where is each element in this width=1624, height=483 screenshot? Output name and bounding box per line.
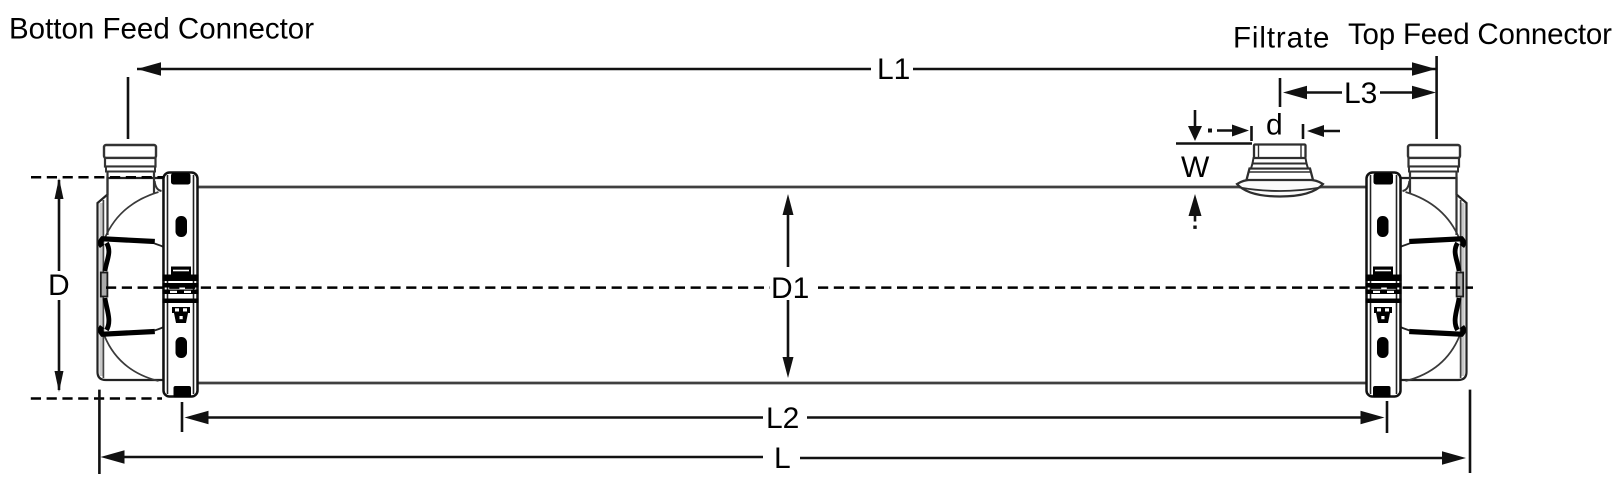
cylinder body shell [197, 187, 1368, 383]
svg-text:W: W [1181, 151, 1210, 184]
dim D [55, 178, 64, 392]
filtrate port [1237, 145, 1323, 197]
svg-text:D: D [48, 269, 70, 302]
svg-text:L: L [774, 442, 791, 475]
dim D1 [783, 194, 794, 378]
dim L3 [1280, 78, 1436, 107]
left end assembly: cap + bottom feed connector pipe + clamp [98, 145, 199, 398]
dashed line D top [31, 176, 164, 179]
svg-text:L3: L3 [1344, 77, 1377, 110]
L1 extension right [1435, 56, 1438, 139]
svg-text:Top Feed Connector: Top Feed Connector [1348, 18, 1612, 51]
filtrate top ferrule [1254, 145, 1306, 159]
L1 extension left [127, 77, 130, 139]
filtrate collar [1247, 169, 1314, 181]
dim L1 [128, 56, 1437, 139]
svg-text:Botton Feed Connector: Botton Feed Connector [9, 13, 314, 46]
filtrate flange [1237, 180, 1323, 197]
dim L2 [182, 401, 1387, 433]
dashed line D bottom [31, 397, 162, 400]
dashed centerline [106, 286, 770, 289]
dim L [99, 390, 1470, 474]
dim d [1208, 124, 1340, 141]
svg-text:L2: L2 [766, 402, 799, 435]
filtrate mid tier [1253, 158, 1307, 164]
svg-text:D1: D1 [771, 272, 809, 305]
svg-text:L1: L1 [877, 53, 910, 86]
dim W [1176, 110, 1252, 229]
right end assembly: cap + top feed connector pipe + clamp (mirrored) [1366, 145, 1467, 398]
svg-text:d: d [1266, 109, 1283, 142]
svg-text:Filtrate: Filtrate [1233, 22, 1330, 55]
